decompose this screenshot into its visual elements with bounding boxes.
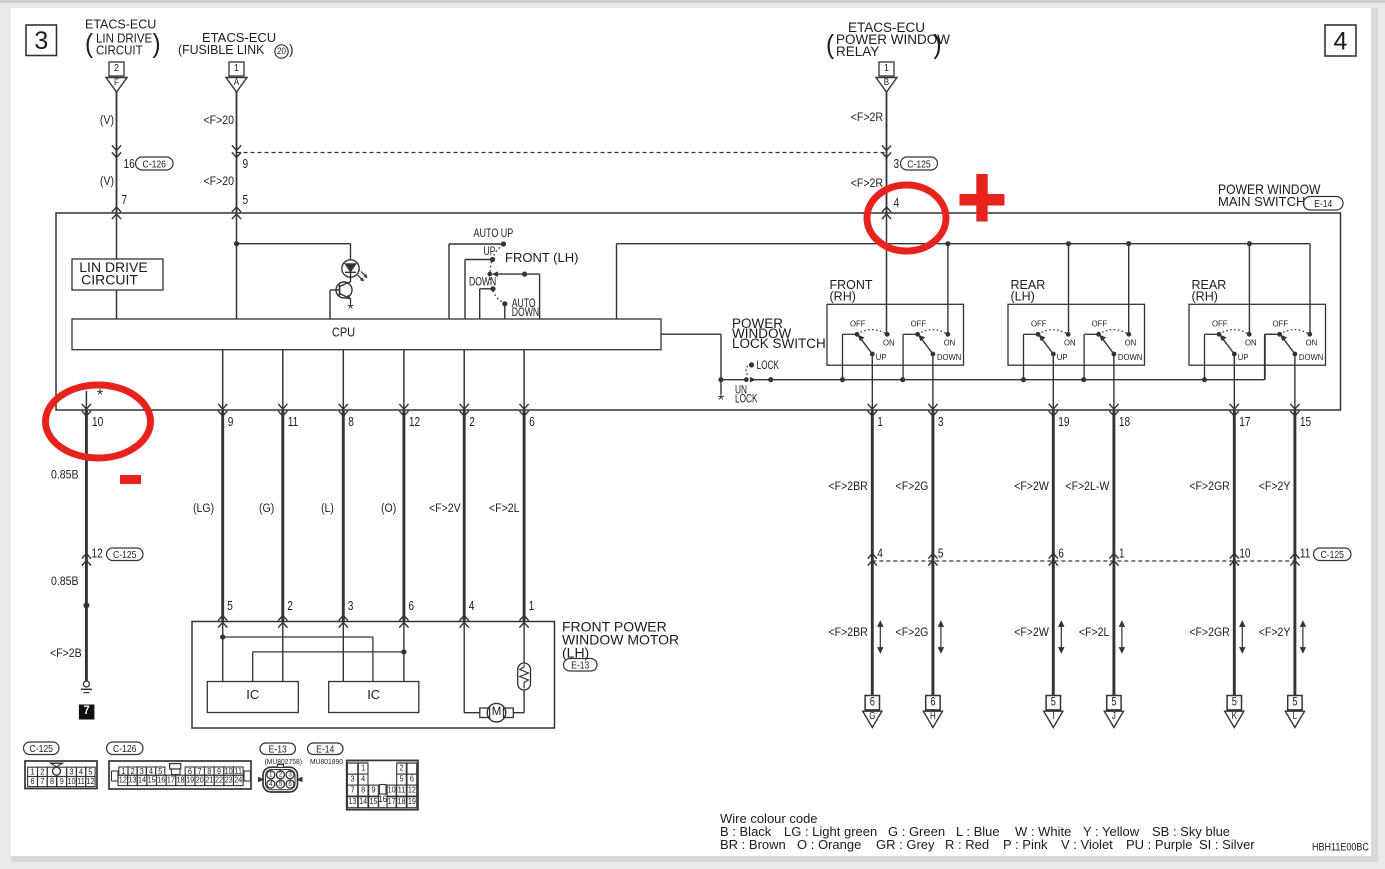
svg-text:7: 7 [40, 777, 44, 787]
svg-text:SI : Silver: SI : Silver [1199, 837, 1255, 852]
svg-text:OFF: OFF [850, 319, 865, 328]
svg-text:CIRCUIT: CIRCUIT [81, 272, 138, 288]
svg-text:6: 6 [288, 781, 292, 788]
svg-text:<F>2V: <F>2V [429, 503, 461, 516]
svg-text:9: 9 [371, 785, 375, 795]
svg-text:6: 6 [410, 774, 415, 784]
svg-text:OFF: OFF [1031, 319, 1046, 328]
svg-text:5: 5 [227, 599, 233, 613]
svg-text:ETACS-ECU: ETACS-ECU [85, 18, 156, 32]
svg-text:J: J [1112, 710, 1116, 721]
svg-text:1: 1 [361, 763, 365, 773]
svg-text:6: 6 [930, 696, 935, 708]
svg-text:<F>2BR: <F>2BR [828, 481, 867, 494]
svg-text:15: 15 [369, 797, 378, 807]
svg-text:1: 1 [529, 599, 535, 613]
svg-text:(RH): (RH) [830, 290, 856, 304]
svg-text:2: 2 [114, 62, 119, 74]
svg-text:2: 2 [469, 415, 475, 429]
svg-text:C-125: C-125 [113, 549, 136, 561]
svg-text:<F>2Y: <F>2Y [1259, 481, 1291, 494]
svg-text:E-14: E-14 [316, 744, 335, 756]
svg-text:11: 11 [398, 785, 405, 795]
svg-text:13: 13 [349, 797, 358, 807]
svg-text:2: 2 [287, 599, 293, 613]
svg-text:UP: UP [1057, 353, 1068, 362]
svg-text:(G): (G) [259, 503, 274, 516]
svg-text:<F>2B: <F>2B [50, 648, 82, 661]
svg-text:<F>2G: <F>2G [896, 627, 929, 640]
svg-text:15: 15 [1300, 415, 1311, 429]
svg-text:LOCK: LOCK [757, 360, 780, 373]
svg-text:12: 12 [119, 775, 127, 785]
svg-text:C-126: C-126 [113, 743, 136, 755]
svg-text:UP: UP [484, 246, 496, 258]
svg-text:19: 19 [1058, 415, 1069, 429]
svg-text:18: 18 [177, 775, 186, 785]
svg-text:5: 5 [279, 781, 283, 788]
svg-text:(V): (V) [100, 115, 114, 128]
svg-text:UP: UP [1238, 353, 1249, 362]
svg-text:E-13: E-13 [571, 660, 589, 672]
svg-text:2: 2 [399, 763, 403, 773]
svg-text:(LG): (LG) [193, 503, 214, 516]
svg-text:11: 11 [77, 777, 84, 787]
svg-text:4: 4 [79, 767, 84, 777]
svg-text:F: F [114, 76, 119, 87]
svg-text:16: 16 [157, 775, 166, 785]
svg-text:17: 17 [167, 775, 175, 785]
svg-text:5: 5 [399, 774, 404, 784]
svg-text:CPU: CPU [332, 325, 355, 340]
svg-text:10: 10 [67, 777, 76, 787]
svg-text:3: 3 [348, 599, 354, 613]
svg-text:C-125: C-125 [907, 159, 930, 171]
svg-text:(O): (O) [381, 503, 396, 516]
svg-text:<F>2GR: <F>2GR [1189, 627, 1229, 640]
svg-text:5: 5 [1051, 696, 1056, 708]
svg-text:9: 9 [60, 777, 64, 787]
svg-text:): ) [289, 42, 294, 57]
svg-text:20: 20 [196, 775, 205, 785]
svg-text:1: 1 [884, 62, 889, 74]
svg-text:<F>2G: <F>2G [896, 481, 929, 494]
svg-text:OFF: OFF [1212, 319, 1227, 328]
svg-text:5: 5 [1232, 696, 1237, 708]
svg-text:16: 16 [124, 157, 135, 171]
svg-text:E-14: E-14 [1314, 198, 1333, 210]
svg-text:23: 23 [225, 775, 234, 785]
svg-text:<F>2BR: <F>2BR [828, 627, 867, 640]
svg-text:1: 1 [234, 62, 239, 74]
svg-text:0.85B: 0.85B [51, 576, 79, 589]
svg-text:ON: ON [944, 338, 956, 347]
svg-text:3: 3 [34, 27, 48, 55]
svg-text:): ) [153, 29, 161, 58]
svg-text:14: 14 [138, 775, 147, 785]
svg-text:10: 10 [1239, 546, 1251, 560]
svg-text:3: 3 [894, 157, 900, 171]
svg-text:8: 8 [348, 415, 354, 429]
svg-text:3: 3 [69, 767, 74, 777]
svg-text:11: 11 [288, 415, 299, 429]
svg-text:ON: ON [1064, 338, 1076, 347]
svg-text:6: 6 [870, 696, 875, 708]
svg-text:(L): (L) [321, 503, 334, 516]
svg-text:M: M [492, 706, 502, 718]
svg-text:ON: ON [883, 338, 895, 347]
svg-text:O : Orange: O : Orange [797, 837, 861, 852]
svg-text:16: 16 [379, 793, 388, 804]
svg-text:CIRCUIT: CIRCUIT [96, 43, 143, 58]
svg-text:LOCK SWITCH: LOCK SWITCH [732, 336, 826, 351]
svg-text:H: H [930, 710, 936, 721]
svg-text:ON: ON [1125, 338, 1137, 347]
svg-text:14: 14 [359, 797, 368, 807]
svg-text:OFF: OFF [911, 319, 926, 328]
svg-text:<F>2R: <F>2R [851, 178, 883, 191]
svg-text:22: 22 [215, 775, 223, 785]
svg-text:3: 3 [351, 774, 356, 784]
svg-text:UP: UP [876, 353, 887, 362]
svg-text:10: 10 [388, 785, 397, 795]
svg-text:OFF: OFF [1092, 319, 1107, 328]
svg-text:MAIN SWITCH: MAIN SWITCH [1218, 194, 1305, 209]
svg-text:(: ( [85, 29, 94, 58]
svg-text:<F>2GR: <F>2GR [1189, 481, 1229, 494]
svg-text:2: 2 [279, 771, 283, 778]
svg-text:17: 17 [1239, 415, 1250, 429]
svg-text:11: 11 [1300, 546, 1311, 560]
svg-text:<F>2W: <F>2W [1014, 627, 1049, 640]
svg-text:V : Violet: V : Violet [1061, 837, 1113, 852]
svg-text:IC: IC [246, 687, 259, 702]
svg-text:C-125: C-125 [30, 743, 53, 755]
svg-text:1: 1 [31, 767, 35, 777]
svg-text:4: 4 [269, 781, 273, 788]
svg-text:A: A [234, 76, 239, 87]
svg-text:1: 1 [269, 771, 273, 778]
svg-text:<F>2L: <F>2L [1079, 627, 1110, 640]
svg-text:C-126: C-126 [143, 159, 166, 171]
svg-text:<F>2L-W: <F>2L-W [1065, 481, 1109, 494]
svg-text:7: 7 [122, 193, 128, 207]
svg-text:19: 19 [186, 775, 194, 785]
svg-text:4: 4 [469, 599, 475, 613]
svg-text:12: 12 [92, 546, 103, 560]
svg-text:(: ( [826, 30, 835, 59]
svg-text:21: 21 [205, 775, 213, 785]
svg-text:5: 5 [1111, 696, 1116, 708]
svg-text:B: B [884, 76, 889, 87]
svg-text:0.85B: 0.85B [51, 469, 79, 482]
svg-text:<F>20: <F>20 [203, 176, 234, 189]
svg-text:BR : Brown: BR : Brown [720, 837, 786, 852]
svg-text:13: 13 [128, 775, 137, 785]
svg-text:17: 17 [388, 797, 396, 807]
svg-text:(LH): (LH) [1011, 290, 1035, 304]
svg-text:ON: ON [1306, 338, 1318, 347]
svg-text:I: I [1052, 710, 1054, 721]
svg-text:FRONT (LH): FRONT (LH) [505, 250, 578, 265]
svg-text:OFF: OFF [1273, 319, 1288, 328]
svg-text:3: 3 [938, 415, 944, 429]
svg-text:1: 1 [1119, 546, 1125, 560]
svg-text:ON: ON [1245, 338, 1257, 347]
svg-text:LOCK: LOCK [735, 393, 758, 406]
svg-text:DOWN: DOWN [937, 353, 962, 362]
svg-text:20: 20 [277, 46, 286, 57]
svg-text:<F>20: <F>20 [203, 115, 234, 128]
svg-text:(V): (V) [100, 176, 114, 189]
svg-text:RELAY: RELAY [836, 44, 879, 59]
svg-text:L: L [1293, 710, 1297, 721]
svg-text:6: 6 [529, 415, 535, 429]
svg-text:<F>2Y: <F>2Y [1259, 627, 1291, 640]
svg-text:7: 7 [84, 705, 90, 718]
svg-text:GR : Grey: GR : Grey [876, 837, 935, 852]
svg-text:): ) [934, 30, 942, 59]
svg-text:6: 6 [31, 777, 36, 787]
svg-text:15: 15 [148, 775, 157, 785]
svg-text:DOWN: DOWN [1118, 353, 1143, 362]
svg-text:G: G [869, 710, 875, 721]
svg-text:12: 12 [409, 415, 420, 429]
svg-text:2: 2 [40, 767, 44, 777]
svg-text:PU : Purple: PU : Purple [1126, 837, 1192, 852]
svg-text:<F>2W: <F>2W [1014, 481, 1049, 494]
svg-text:IC: IC [367, 687, 380, 702]
svg-text:24: 24 [234, 775, 243, 785]
svg-text:4: 4 [361, 774, 366, 784]
svg-text:AUTO UP: AUTO UP [474, 227, 514, 241]
svg-text:12: 12 [408, 785, 416, 795]
svg-text:5: 5 [938, 546, 944, 560]
svg-text:6: 6 [1058, 546, 1064, 560]
svg-text:(RH): (RH) [1192, 290, 1218, 304]
svg-text:(FUSIBLE LINK: (FUSIBLE LINK [178, 43, 265, 57]
svg-text:R : Red: R : Red [945, 837, 989, 852]
svg-text:7: 7 [351, 785, 355, 795]
svg-text:DOWN: DOWN [512, 307, 539, 319]
svg-text:4: 4 [877, 546, 883, 560]
svg-text:K: K [1232, 710, 1237, 721]
svg-text:9: 9 [243, 157, 249, 171]
svg-text:MU801890: MU801890 [310, 758, 343, 766]
svg-text:8: 8 [50, 777, 55, 787]
svg-text:5: 5 [243, 193, 249, 207]
svg-text:9: 9 [228, 415, 234, 429]
svg-text:18: 18 [1119, 415, 1130, 429]
svg-text:HBH11E00BC: HBH11E00BC [1312, 842, 1369, 854]
svg-text:12: 12 [86, 777, 94, 787]
svg-text:19: 19 [408, 797, 416, 807]
svg-text:P : Pink: P : Pink [1003, 837, 1048, 852]
svg-text:4: 4 [1334, 28, 1348, 56]
svg-text:<F>2R: <F>2R [851, 112, 883, 125]
svg-text:10: 10 [92, 415, 104, 429]
svg-text:E-13: E-13 [269, 744, 287, 756]
svg-text:3: 3 [288, 771, 292, 778]
svg-text:4: 4 [894, 196, 900, 210]
svg-text:6: 6 [408, 599, 414, 613]
svg-text:<F>2L: <F>2L [489, 503, 520, 516]
svg-text:5: 5 [1292, 696, 1297, 708]
svg-text:C-125: C-125 [1321, 549, 1344, 561]
svg-text:5: 5 [88, 767, 93, 777]
svg-text:1: 1 [877, 415, 883, 429]
svg-text:DOWN: DOWN [1299, 353, 1324, 362]
svg-text:18: 18 [397, 797, 406, 807]
svg-text:8: 8 [361, 785, 366, 795]
